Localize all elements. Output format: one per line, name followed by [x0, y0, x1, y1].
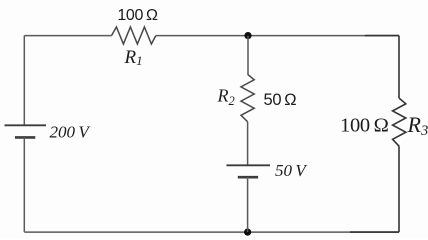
wire top near right corner (darker)	[365, 35, 399, 37]
wire top left segment	[24, 35, 111, 37]
wire bottom	[24, 231, 399, 233]
wire top right segment	[156, 35, 399, 37]
svg-text:200 V: 200 V	[50, 122, 92, 141]
wire middle branch lower	[247, 177, 249, 232]
svg-text:100 Ω: 100 Ω	[340, 114, 389, 136]
node B (bottom junction dot)	[244, 229, 251, 236]
wire middle branch upper	[247, 36, 249, 75]
resistor R2	[241, 74, 254, 121]
wire left vertical lower	[23, 137, 25, 232]
node A (top junction dot)	[244, 32, 251, 39]
svg-text:R3: R3	[407, 112, 428, 139]
wire bottom near right corner (darker)	[350, 231, 399, 233]
wire left vertical upper	[23, 36, 25, 126]
svg-text:R1: R1	[124, 47, 143, 68]
svg-text:R2: R2	[217, 85, 235, 108]
svg-text:50 Ω: 50 Ω	[264, 91, 297, 109]
battery B2 (50 V)	[227, 165, 271, 177]
wire middle between R2 and battery	[247, 122, 249, 166]
wire right vertical upper	[398, 36, 400, 99]
resistor R3	[393, 98, 406, 146]
battery B1 (200 V)	[5, 125, 47, 137]
wire right vertical lower	[398, 146, 400, 232]
resistor R1	[112, 27, 156, 44]
svg-text:50 V: 50 V	[275, 161, 308, 180]
svg-text:100 Ω: 100 Ω	[117, 7, 158, 24]
